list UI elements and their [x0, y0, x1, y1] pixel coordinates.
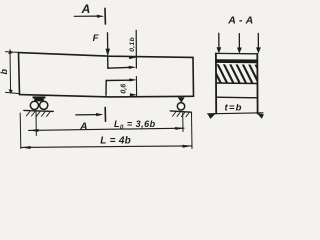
section load arrow 1 stem [218, 33, 220, 48]
section plate black bar [216, 59, 257, 63]
force F arrowhead [106, 49, 111, 57]
top notch dim arrowhead on beam top edge [129, 56, 137, 59]
right support roller [177, 103, 184, 110]
dimension L: right extension line [191, 113, 194, 149]
right support ground hatching [173, 112, 190, 117]
svg-text:t=b: t=b [225, 103, 243, 114]
section width left arrowhead [208, 113, 217, 119]
left support roller 1 [30, 101, 38, 109]
dimension b: bottom extension line [6, 92, 20, 93]
section lower horizontal line [216, 96, 258, 99]
svg-text:0,6: 0,6 [121, 84, 128, 94]
dimension L: left arrowhead [21, 146, 31, 149]
svg-text:L0 = 3,6b: L0 = 3,6b [114, 119, 156, 131]
section marker bottom: arrowhead [96, 113, 103, 116]
left support ground line [24, 110, 54, 111]
bottom notch dim arrowhead upper [129, 78, 137, 81]
section box right edge [256, 54, 258, 114]
svg-text:A: A [81, 2, 91, 16]
top notch dim arrowhead on horizontal line [129, 66, 137, 69]
svg-text:A - A: A - A [227, 14, 253, 26]
section box left edge [215, 53, 217, 113]
section hatch band bottom line [216, 82, 257, 85]
dimension b: top arrowhead [8, 50, 12, 54]
section width dimension line [208, 113, 264, 114]
beam bottom edge [20, 95, 194, 97]
section marker top: arrow line [74, 15, 98, 17]
section load arrow 2 head [237, 48, 242, 54]
bottom notch horizontal line [106, 79, 130, 81]
dimension L: right arrowhead [182, 145, 191, 148]
beam left edge [19, 53, 20, 95]
dimension L: dimension line [21, 146, 192, 148]
bottom notch extension line [135, 77, 137, 96]
section hatch band strokes [211, 64, 265, 84]
bottom notch vertical line [105, 81, 107, 96]
top notch extension line [135, 30, 137, 68]
svg-text:F: F [93, 33, 99, 44]
svg-text:A: A [79, 121, 88, 133]
section load arrow 3 head [256, 47, 261, 53]
svg-text:0,1b: 0,1b [129, 37, 136, 52]
force F arrow stem [107, 33, 109, 50]
section load arrow 2 stem [238, 34, 240, 49]
beam top edge [19, 53, 194, 58]
dimension L0: left arrowhead [29, 129, 39, 132]
top notch horizontal line [108, 66, 130, 69]
dimension L0: dimension line [29, 128, 184, 130]
section marker bottom: arrow line [76, 114, 97, 116]
left support roller 2 [40, 101, 48, 109]
dimension b: vertical dimension line [9, 50, 12, 93]
dimension L0: left extension line [35, 112, 37, 136]
section marker bottom: cut tick [104, 107, 106, 121]
top notch vertical line [107, 58, 109, 69]
beam right edge [192, 57, 195, 96]
right support ground line [170, 111, 191, 112]
section box top line [216, 52, 257, 54]
right support wedge [178, 97, 185, 103]
section load arrow 3 stem [257, 33, 259, 48]
dimension b: top extension line [6, 51, 19, 54]
section marker top: cut tick [104, 8, 106, 24]
dimension L: left extension line [19, 113, 22, 149]
svg-text:L = 4b: L = 4b [100, 136, 131, 147]
left support ground hatching [27, 111, 51, 116]
left support pedestal [33, 96, 46, 101]
bottom notch dim arrowhead lower [130, 93, 138, 96]
section load arrow 1 head [217, 47, 222, 53]
section marker top: arrowhead [97, 15, 104, 18]
section width right arrowhead [257, 113, 264, 119]
svg-text:b: b [0, 69, 9, 75]
dimension L0: right arrowhead [175, 127, 184, 130]
dimension L0: right extension line [182, 113, 184, 132]
dimension b: bottom arrowhead [9, 89, 13, 94]
